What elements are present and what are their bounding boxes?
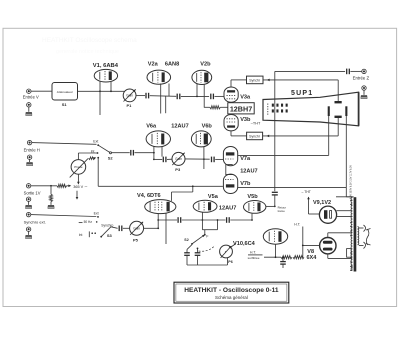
capacitor filter xyxy=(282,257,284,261)
capacitor coupling C1 xyxy=(145,93,147,99)
dashed gang link xyxy=(199,246,216,252)
capacitor coupling xyxy=(211,157,213,163)
svg-text:V7b: V7b xyxy=(240,181,251,187)
wire synchro bottom to CRT plate xyxy=(263,135,339,137)
svg-text:P6: P6 xyxy=(228,260,232,264)
box 12BH7 xyxy=(228,103,254,114)
wire V1 cathode lead xyxy=(99,82,101,115)
wire V8 bottom to transformer xyxy=(327,254,329,259)
mains plug xyxy=(359,227,364,229)
capacitor to ground 2 xyxy=(197,249,199,253)
CRT deflection plate top xyxy=(335,101,342,103)
wire rail with caps xyxy=(158,219,177,221)
synchro box bottom xyxy=(247,132,263,140)
svg-text:V6a: V6a xyxy=(146,123,157,129)
transformer taps xyxy=(350,200,352,202)
svg-text:P5: P5 xyxy=(133,237,139,242)
CRT gun electrodes xyxy=(267,104,269,116)
svg-text:5UP1: 5UP1 xyxy=(291,90,313,97)
svg-text:Ext: Ext xyxy=(94,212,99,216)
wire xyxy=(32,143,97,145)
svg-text:trame: trame xyxy=(278,209,286,213)
svg-text:Sortie 1V: Sortie 1V xyxy=(24,190,41,195)
wire Entrée Z line xyxy=(275,70,345,72)
CRT 5UP1 envelope xyxy=(263,92,359,126)
attenuator box S1 xyxy=(52,83,78,101)
tube V3a xyxy=(224,87,238,102)
wire V4 lead down xyxy=(165,213,167,244)
svg-text:HEATHKIT Oscilloscope schema: HEATHKIT Oscilloscope schema xyxy=(42,37,137,44)
wire bottom xyxy=(187,264,228,266)
capacitor coupling xyxy=(118,226,120,232)
synchro box top xyxy=(247,76,264,84)
svg-text:220V: 220V xyxy=(351,264,354,270)
wire xyxy=(154,158,162,160)
wire V2b plate lead down xyxy=(203,84,205,107)
ground xyxy=(48,205,54,206)
wire CRT left plate to V7a xyxy=(328,116,330,155)
wire Phase top lead xyxy=(77,153,79,160)
wire V8 top to transformer xyxy=(327,233,329,238)
svg-text:V4, 6DT6: V4, 6DT6 xyxy=(137,193,161,199)
CRT deflection plate right xyxy=(345,106,347,116)
svg-text:V5a: V5a xyxy=(208,194,219,200)
wire from S2 down to rail xyxy=(97,158,99,187)
svg-text:S2: S2 xyxy=(184,238,188,242)
terminal Synchro ext xyxy=(26,212,30,216)
wire xyxy=(31,215,97,217)
svg-text:Entrée V: Entrée V xyxy=(23,95,39,100)
wire dropper xyxy=(165,96,167,113)
svg-text:V10,6C4: V10,6C4 xyxy=(233,241,256,247)
wire V8 left xyxy=(303,244,320,246)
wire V1 plate lead xyxy=(110,82,112,92)
wire vertical Z feed xyxy=(274,71,276,191)
wire V5b lead xyxy=(251,214,253,220)
resistor filter 1 xyxy=(281,256,292,259)
terminal Sortie 1V xyxy=(26,184,30,188)
ground xyxy=(27,162,33,163)
terminal Entrée Z xyxy=(362,69,366,73)
wire xyxy=(167,158,172,160)
svg-text:Ext: Ext xyxy=(93,140,98,144)
svg-text:V2b: V2b xyxy=(200,62,211,68)
wire arrow below xyxy=(76,191,78,199)
wire xyxy=(31,90,52,92)
CRT deflection plate bottom xyxy=(335,116,342,118)
potentiometer P6 xyxy=(220,245,233,258)
svg-text:surfiltrée: surfiltrée xyxy=(248,256,260,260)
svg-text:Atténuateur: Atténuateur xyxy=(57,90,73,94)
svg-text:Synchro ext.: Synchro ext. xyxy=(24,219,46,224)
wire V2b lead xyxy=(196,84,198,96)
svg-text:V2a: V2a xyxy=(148,62,159,68)
wires V9 to transformer xyxy=(336,196,352,198)
wire V6a grid lead xyxy=(153,146,155,159)
wire xyxy=(123,227,130,229)
svg-text:– THT: – THT xyxy=(302,190,311,194)
terminal Sortie ground side xyxy=(26,197,30,201)
svg-text:V7a: V7a xyxy=(240,156,251,162)
svg-text:12AU7: 12AU7 xyxy=(240,168,257,174)
wire V3b to synchro xyxy=(230,131,232,136)
capacitor coupling C3 xyxy=(210,94,212,100)
svg-text:Synchr: Synchr xyxy=(249,135,261,139)
title box xyxy=(174,282,289,303)
wire synchro top to CRT plate xyxy=(263,79,338,81)
svg-text:H.T.: H.T. xyxy=(294,222,300,226)
svg-text:–THT: –THT xyxy=(251,122,261,126)
wire xyxy=(181,95,209,97)
wire xyxy=(111,227,118,229)
capacitor coupling xyxy=(162,157,164,163)
svg-text:Gain: Gain xyxy=(175,157,182,161)
svg-text:365 V ∼: 365 V ∼ xyxy=(73,185,87,189)
terminal Entrée V xyxy=(27,89,31,93)
svg-text:Int: Int xyxy=(79,233,83,237)
svg-text:generale notice technique: generale notice technique xyxy=(56,49,119,55)
resistor to 12BH7 grid xyxy=(204,106,210,108)
svg-text:Schéma général: Schéma général xyxy=(215,295,248,300)
wire V6a cathode lead xyxy=(161,147,163,157)
capacitor xyxy=(177,217,179,223)
svg-text:Synchr: Synchr xyxy=(249,79,261,83)
svg-text:H.T.: H.T. xyxy=(250,251,256,255)
wire xyxy=(144,227,159,229)
svg-text:Gain: Gain xyxy=(133,227,140,231)
transformer primary winding xyxy=(351,198,352,271)
svg-text:Entrée Z: Entrée Z xyxy=(353,76,370,81)
wire V2a grid lead xyxy=(160,84,162,114)
svg-text:Gain: Gain xyxy=(126,94,133,98)
wire V3a plate to synchro xyxy=(230,80,232,87)
potentiometer Gain P3 xyxy=(172,152,185,165)
wire V5b to retour xyxy=(266,205,275,207)
svg-text:6X4: 6X4 xyxy=(307,255,318,261)
wire xyxy=(150,95,177,98)
terminal Entrée H xyxy=(27,140,31,144)
wire xyxy=(31,185,57,187)
svg-text:F: F xyxy=(206,234,209,238)
svg-text:50 Hz: 50 Hz xyxy=(84,220,93,224)
terminal Entrée Z ground xyxy=(362,86,366,90)
svg-text:V3b: V3b xyxy=(240,117,251,123)
svg-text:6AN8: 6AN8 xyxy=(165,61,179,67)
svg-text:HEATHKIT - Oscilloscope 0-11: HEATHKIT - Oscilloscope 0-11 xyxy=(184,287,279,294)
svg-text:Entrée H: Entrée H xyxy=(24,147,40,152)
wire xyxy=(136,95,145,97)
capacitor xyxy=(226,217,228,223)
svg-text:S2: S2 xyxy=(108,156,114,161)
wire V2a plate lead xyxy=(168,84,170,97)
tube V7a xyxy=(223,147,237,166)
wire HT filter xyxy=(264,256,281,258)
terminal Entrée H ground side xyxy=(27,155,31,159)
wire V5a lead xyxy=(201,212,203,230)
wire Phase bottom lead xyxy=(77,174,79,182)
ground xyxy=(361,95,367,96)
resistor to ground xyxy=(50,186,52,194)
ground xyxy=(26,235,32,236)
svg-text:S3: S3 xyxy=(107,233,113,238)
terminal Entrée V ground side xyxy=(27,103,31,107)
svg-text:Phase: Phase xyxy=(74,165,83,169)
capacitor Entrée Z xyxy=(346,69,348,75)
svg-text:V1, 6AB4: V1, 6AB4 xyxy=(93,63,119,69)
wire xyxy=(78,90,125,92)
wire to transformer top xyxy=(345,187,347,196)
potentiometer Gain P1 xyxy=(123,89,136,102)
wire V4 grid lead xyxy=(157,213,159,228)
cathode bracket V7 xyxy=(226,165,233,175)
wire V4 plate up xyxy=(171,192,173,201)
svg-text:V9,1V2: V9,1V2 xyxy=(313,200,331,206)
wire CRT right plate to V7b xyxy=(345,116,347,187)
transformer T1 core xyxy=(354,197,357,271)
capacitor to ground 1 xyxy=(187,245,192,250)
svg-text:V5b: V5b xyxy=(247,194,258,200)
svg-text:S1: S1 xyxy=(62,102,68,107)
tube V7b xyxy=(223,174,237,193)
ground xyxy=(26,205,32,206)
capacitor coupling C2 xyxy=(176,94,178,100)
svg-text:P1: P1 xyxy=(127,103,133,108)
svg-text:V3a: V3a xyxy=(240,95,251,101)
svg-text:6,3V 350V 6,3V 2,5V 117V: 6,3V 350V 6,3V 2,5V 117V 6,3V xyxy=(350,165,353,199)
transformer secondary winding xyxy=(358,227,359,245)
wire 365V rail xyxy=(98,185,223,187)
ground xyxy=(26,112,32,113)
switch S2 second deck xyxy=(202,229,217,231)
wire xyxy=(135,152,154,154)
svg-text:V6b: V6b xyxy=(202,123,213,129)
svg-text:12AU7: 12AU7 xyxy=(171,123,188,129)
wire V10 lead down xyxy=(275,244,277,257)
wire xyxy=(215,158,223,160)
tube V3b xyxy=(224,115,238,131)
potentiometer Gain P5 xyxy=(130,221,144,235)
resistor 365V xyxy=(57,184,67,187)
wire V9 left xyxy=(309,213,320,215)
wire P6 to V10 label line xyxy=(231,244,236,248)
wire xyxy=(185,158,210,160)
wire V6b lead xyxy=(203,147,205,169)
capacitor on Z feed xyxy=(272,191,278,193)
svg-text:r: r xyxy=(225,250,227,254)
svg-text:12AU7: 12AU7 xyxy=(219,205,236,211)
CRT deflection plate left xyxy=(328,106,330,116)
wire xyxy=(215,95,224,97)
svg-text:12BH7: 12BH7 xyxy=(230,105,252,114)
wire xyxy=(112,152,130,154)
svg-text:P3: P3 xyxy=(175,167,181,172)
resistor filter 2 xyxy=(293,256,304,259)
terminal Synchro ground side xyxy=(26,227,30,231)
capacitor coupling xyxy=(130,150,132,156)
small winding box xyxy=(347,249,352,258)
wire HT up xyxy=(302,227,304,258)
potentiometer Phase xyxy=(71,160,86,175)
